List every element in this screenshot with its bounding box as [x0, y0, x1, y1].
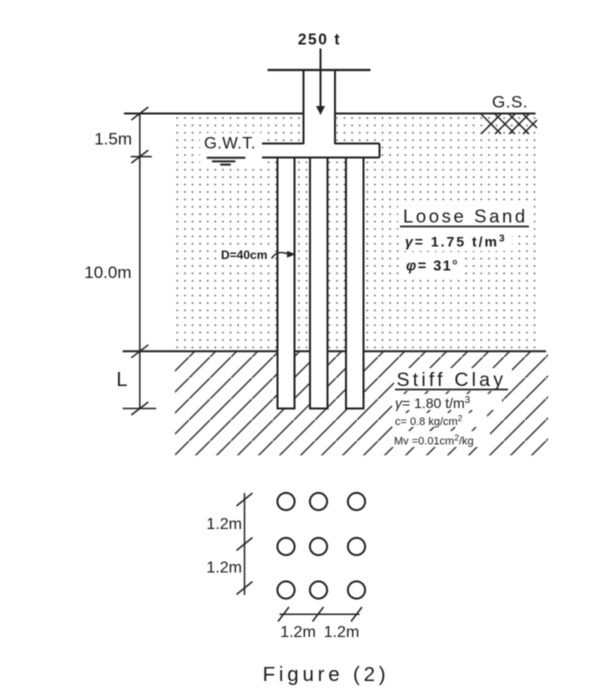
- svg-text:10.0m: 10.0m: [84, 263, 131, 282]
- svg-text:Figure (2): Figure (2): [263, 663, 390, 686]
- svg-text:Mv =0.01cm2/kg: Mv =0.01cm2/kg: [394, 433, 474, 448]
- svg-text:1.2m: 1.2m: [206, 560, 242, 577]
- svg-text:Stiff Clay: Stiff Clay: [397, 369, 507, 391]
- svg-text:1.2m: 1.2m: [324, 624, 360, 641]
- svg-text:L: L: [116, 369, 127, 391]
- svg-text:1.5m: 1.5m: [94, 130, 132, 149]
- svg-text:c= 0.8 kg/cm2: c= 0.8 kg/cm2: [395, 413, 463, 428]
- svg-text:G.W.T.: G.W.T.: [204, 135, 256, 153]
- svg-text:1.2m: 1.2m: [280, 624, 316, 641]
- svg-text:φ= 31o: φ= 31o: [406, 258, 459, 275]
- svg-text:G.S.: G.S.: [492, 93, 528, 112]
- svg-text:Loose Sand: Loose Sand: [403, 206, 528, 227]
- svg-text:250 t: 250 t: [298, 32, 341, 49]
- svg-text:D=40cm: D=40cm: [221, 248, 267, 262]
- svg-text:1.2m: 1.2m: [206, 516, 242, 533]
- svg-text:γ= 1.80 t/m3: γ= 1.80 t/m3: [395, 395, 471, 411]
- svg-text:γ= 1.75 t/m3: γ= 1.75 t/m3: [405, 234, 507, 250]
